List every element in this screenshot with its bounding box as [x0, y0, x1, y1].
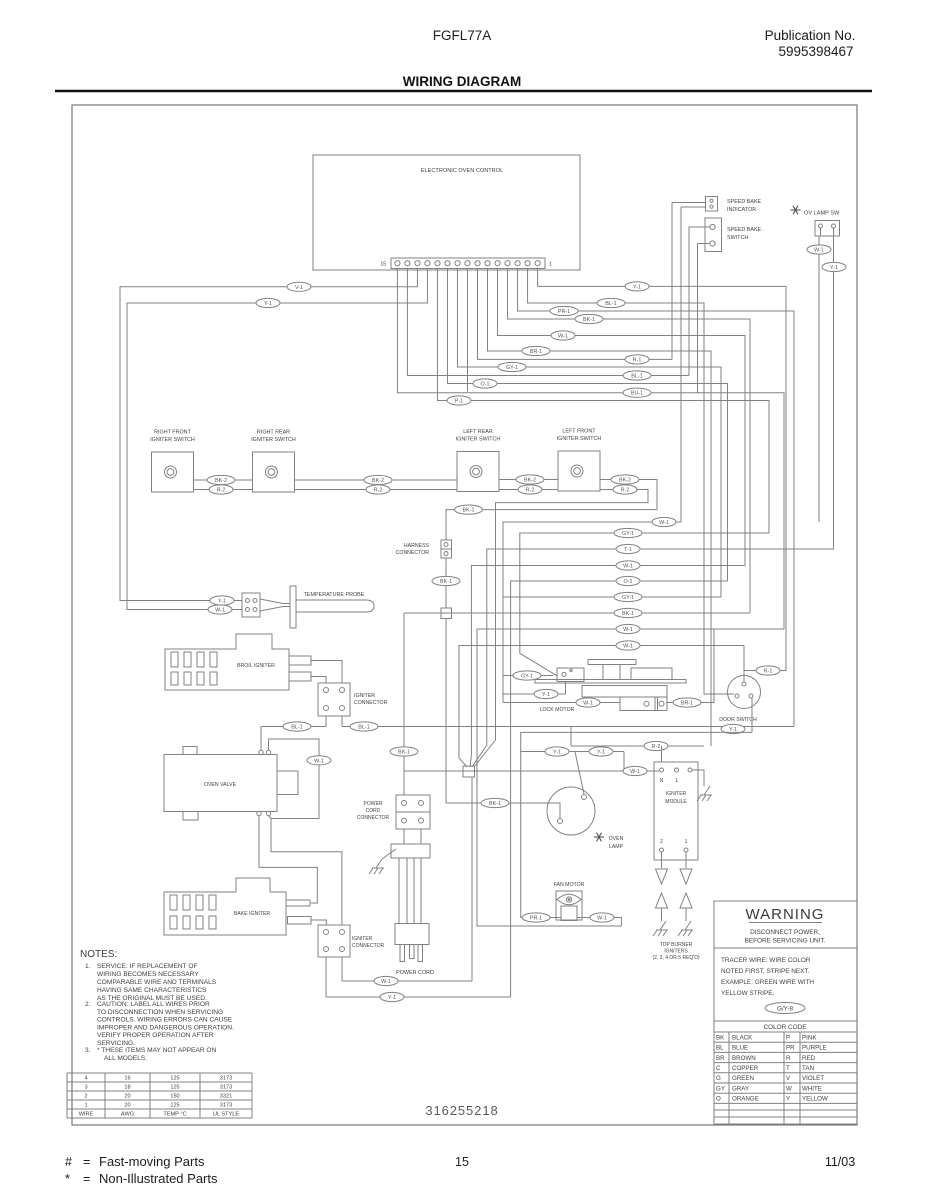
wire W-1 from EOC terminal 5: [498, 269, 745, 566]
bake igniter terminal bars: [286, 900, 311, 924]
power cord assembly W1: [391, 829, 434, 976]
wire BK-1 from harness connector to junction: [432, 558, 460, 608]
svg-text:LOCK MOTOR: LOCK MOTOR: [540, 707, 575, 713]
svg-text:BL-1: BL-1: [631, 374, 642, 380]
svg-text:PR-1: PR-1: [558, 309, 570, 315]
EOC terminal strip pins 15..1: [380, 258, 552, 269]
svg-text:W-1: W-1: [558, 334, 568, 340]
svg-text:CORD: CORD: [366, 808, 381, 814]
svg-text:WHITE: WHITE: [802, 1085, 822, 1092]
svg-text:G: G: [716, 1075, 721, 1082]
svg-text:CONNECTOR: CONNECTOR: [354, 700, 388, 706]
svg-text:W-1: W-1: [623, 564, 633, 570]
svg-text:BK-1: BK-1: [583, 317, 595, 323]
svg-text:BL-1: BL-1: [358, 725, 369, 731]
wire BR-1 from lock motor right: [666, 629, 714, 707]
wire speed bake switch feed 1: [688, 227, 690, 376]
wire GY-1 to lock motor switch: [503, 671, 553, 680]
electronic oven control U1: [313, 155, 580, 270]
svg-text:WIRE: WIRE: [79, 1112, 94, 1118]
wire to igniter module pin 2: [661, 746, 663, 762]
wire from EOC terminal 8 down to bus: [466, 269, 468, 392]
wire W-1 from fan motor: [577, 913, 621, 926]
wire R-2 igniter switch chain segment 1: [194, 485, 253, 494]
svg-text:IGNITER: IGNITER: [352, 936, 373, 942]
svg-text:BK-2: BK-2: [215, 478, 227, 484]
svg-text:INDICATOR: INDICATOR: [727, 207, 756, 213]
svg-text:20: 20: [124, 1103, 130, 1109]
svg-text:O-1: O-1: [481, 382, 490, 388]
svg-text:BAKE IGNITER: BAKE IGNITER: [234, 911, 271, 917]
svg-text:W-1: W-1: [583, 701, 593, 707]
svg-text:POWER: POWER: [364, 801, 383, 807]
warning box: [714, 901, 857, 1124]
wire speed bake switch feed 2: [697, 244, 699, 393]
svg-text:R-2: R-2: [217, 488, 226, 494]
svg-text:4: 4: [84, 1076, 87, 1082]
wire BK-1 junction to oven lamp feed: [445, 619, 447, 804]
svg-text:GY-1: GY-1: [622, 595, 634, 601]
wire PR-1 to fan motor: [521, 913, 561, 922]
wire BL-1 from EOC terminal 2 to door switch: [528, 269, 734, 695]
svg-text:BK-2: BK-2: [524, 478, 536, 484]
svg-text:BK-1: BK-1: [463, 508, 475, 514]
speed bake indicator DS1: [706, 197, 762, 214]
ground G1 power cord: [369, 849, 396, 874]
wire Y-1 bake connector to O-1 riser: [326, 957, 511, 1002]
svg-text:* THESE ITEMS MAY NOT APPEA: * THESE ITEMS MAY NOT APPEAR ON: [97, 1047, 217, 1054]
wire BK-2 igniter switch chain segment 2: [295, 475, 458, 484]
svg-text:TRACER WIRE: WIRE COLOR: TRACER WIRE: WIRE COLOR: [721, 957, 811, 964]
title WIRING DIAGRAM: [55, 74, 872, 91]
svg-text:IGNITER SWITCH: IGNITER SWITCH: [557, 436, 602, 442]
lock motor M1: [535, 660, 686, 714]
temperature probe RT1: [242, 586, 374, 628]
svg-text:11/03: 11/03: [825, 1155, 855, 1169]
svg-text:Non-Illustrated Parts: Non-Illustrated Parts: [99, 1171, 218, 1186]
right rear igniter switch S4: [251, 430, 296, 493]
svg-text:R-2: R-2: [526, 488, 535, 494]
svg-text:125: 125: [170, 1103, 179, 1109]
svg-text:R: R: [786, 1055, 791, 1062]
svg-text:CONNECTOR: CONNECTOR: [396, 550, 430, 556]
wire W-1 to lock motor: [503, 698, 620, 707]
svg-text:TOP BURNER: TOP BURNER: [660, 942, 693, 948]
svg-text:BK-1: BK-1: [489, 801, 501, 807]
svg-text:18: 18: [124, 1085, 130, 1091]
ground G2 igniter module: [692, 770, 712, 801]
wire W-1 speed bake to junction bundle: [503, 517, 681, 702]
svg-text:OVEN VALVE: OVEN VALVE: [204, 782, 237, 788]
svg-text:15: 15: [455, 1155, 469, 1169]
svg-text:OV LAMP SW: OV LAMP SW: [804, 211, 840, 217]
svg-text:BLUE: BLUE: [732, 1045, 748, 1052]
svg-text:W-1: W-1: [623, 644, 633, 650]
svg-text:BL: BL: [716, 1045, 724, 1052]
wire link BL-1 line to R-2 line: [570, 727, 572, 747]
svg-text:FGFL77A: FGFL77A: [433, 28, 492, 43]
svg-text:W-1: W-1: [623, 627, 633, 633]
left rear igniter switch S5: [456, 429, 501, 492]
svg-text:DOOR SWITCH: DOOR SWITCH: [719, 717, 757, 723]
svg-text:SPEED BAKE: SPEED BAKE: [727, 227, 762, 233]
wire Y-1 to oven lamp: [521, 747, 624, 794]
wire W-1 line to junction bundle 2: [470, 561, 745, 767]
svg-text:PURPLE: PURPLE: [802, 1045, 827, 1052]
svg-text:YELLOW STRIPE.: YELLOW STRIPE.: [721, 990, 774, 997]
speed bake switch S1: [705, 218, 762, 252]
wire GY-1 line to lock motor: [503, 592, 721, 601]
svg-text:C: C: [716, 1065, 721, 1072]
svg-text:SERVICE: IF REPLACEMENT OF: SERVICE: IF REPLACEMENT OF: [97, 963, 198, 970]
svg-text:ORANGE: ORANGE: [732, 1096, 759, 1103]
svg-text:AWG: AWG: [121, 1112, 134, 1118]
wire BK-2 from left front igniter switch to harness connector: [446, 475, 657, 540]
svg-text:EXAMPLE: GREEN WIRE WITH: EXAMPLE: GREEN WIRE WITH: [721, 979, 814, 986]
wire O-1 from EOC terminal 10: [447, 269, 727, 582]
svg-text:150: 150: [170, 1094, 179, 1100]
svg-text:1: 1: [549, 262, 552, 268]
wire BK-1 to oven lamp left pin: [446, 798, 560, 819]
svg-text:TEMPERATURE PROBE: TEMPERATURE PROBE: [304, 592, 365, 598]
label G/Y-8 tracer example: [765, 1003, 805, 1014]
svg-text:R-2: R-2: [621, 488, 630, 494]
wire R-1 from EOC terminal 7 to speed bake indicator: [478, 269, 672, 365]
svg-text:CONNECTOR: CONNECTOR: [352, 943, 385, 949]
svg-text:316255218: 316255218: [425, 1103, 498, 1118]
svg-text:1: 1: [84, 1103, 87, 1109]
svg-text:COPPER: COPPER: [732, 1065, 759, 1072]
svg-text:5995398467: 5995398467: [778, 44, 853, 59]
wire BK-1 from EOC terminal 4: [508, 269, 750, 614]
bake igniter connector P4: [318, 925, 385, 957]
svg-text:OVEN: OVEN: [609, 836, 624, 842]
svg-text:2: 2: [660, 839, 663, 845]
wire PR-1 riser to fan motor: [521, 732, 752, 917]
wire P-1 from EOC terminal 11: [437, 269, 769, 534]
svg-text:R-1: R-1: [764, 669, 773, 675]
wire W-1 door switch drop: [743, 646, 745, 677]
svg-text:BK-1: BK-1: [622, 611, 634, 617]
power cord junction node B: [463, 766, 475, 777]
svg-text:R-2: R-2: [652, 744, 661, 750]
svg-text:SERVICING.: SERVICING.: [97, 1040, 135, 1047]
svg-text:3.: 3.: [85, 1047, 91, 1054]
svg-text:DISCONNECT POWER,: DISCONNECT POWER,: [750, 929, 820, 936]
svg-text:15: 15: [380, 262, 386, 268]
wire BK-2 igniter switch chain segment 3: [499, 475, 558, 484]
wire broil igniter to connector pin 1: [311, 661, 342, 684]
svg-text:3173: 3173: [220, 1076, 232, 1082]
svg-text:W-1: W-1: [814, 248, 824, 254]
svg-text:BK-1: BK-1: [398, 750, 410, 756]
wire Y-1 from EOC terminal 12 to temperature probe: [127, 269, 427, 615]
wire PR-1 from EOC terminal 3: [518, 269, 794, 727]
svg-text:IGNITERS: IGNITERS: [664, 949, 688, 955]
wire O-1 line to bake igniter connector: [511, 576, 728, 997]
svg-text:TO DISCONNECTION WHEN SERVI: TO DISCONNECTION WHEN SERVICING: [97, 1009, 223, 1016]
svg-text:3173: 3173: [220, 1085, 232, 1091]
svg-text:V-1: V-1: [295, 285, 303, 291]
svg-text:RED: RED: [802, 1055, 816, 1062]
wire BR-1 from EOC terminal 6: [488, 269, 711, 747]
svg-text:Publication No.: Publication No.: [765, 28, 856, 43]
wire W-1 power junction to igniter module: [404, 766, 659, 775]
page header publication number: [765, 28, 856, 59]
harness connector P1: [396, 540, 452, 558]
wire R-2 horizontal above igniter module: [571, 741, 704, 750]
wire oven valve lower-right to bake igniter connector: [269, 816, 342, 926]
svg-text:UL STYLE: UL STYLE: [213, 1112, 239, 1118]
wire Y-1 from oven lamp switch down right leg: [822, 236, 846, 549]
svg-text:3: 3: [84, 1085, 87, 1091]
svg-text:YELLOW: YELLOW: [802, 1096, 828, 1103]
svg-text:W-1: W-1: [381, 979, 391, 985]
svg-text:LAMP: LAMP: [609, 844, 624, 850]
svg-text:SPEED BAKE: SPEED BAKE: [727, 199, 762, 205]
svg-text:MODULE: MODULE: [665, 799, 687, 805]
svg-text:=: =: [83, 1155, 90, 1169]
power cord connector P3: [357, 795, 430, 829]
wire GY-1 from EOC terminal 9: [457, 269, 721, 598]
svg-text:COMPARABLE WIRE AND TERMINA: COMPARABLE WIRE AND TERMINALS: [97, 979, 217, 986]
svg-text:Y-1: Y-1: [264, 301, 272, 307]
svg-text:BK-1: BK-1: [440, 579, 452, 585]
wire door switch lower pin drop: [751, 698, 753, 732]
wire Y-1 to lock motor switch: [503, 689, 566, 698]
svg-text:RIGHT FRONT: RIGHT FRONT: [154, 430, 191, 436]
wire V-1 from EOC terminal 13 to temperature probe: [120, 269, 417, 606]
door switch S8: [719, 676, 760, 724]
svg-text:ELECTRONIC OVEN CONTROL: ELECTRONIC OVEN CONTROL: [421, 168, 503, 174]
lock motor switch S7: [557, 668, 584, 694]
notes text block: [80, 949, 234, 1062]
svg-text:SWITCH: SWITCH: [727, 235, 748, 241]
svg-text:PR-1: PR-1: [530, 916, 542, 922]
svg-text:=: =: [83, 1172, 90, 1186]
svg-text:125: 125: [170, 1076, 179, 1082]
svg-text:IGNITER: IGNITER: [666, 791, 687, 797]
wire to speed bake indicator pin 1: [672, 202, 706, 204]
svg-text:CONNECTOR: CONNECTOR: [357, 815, 390, 821]
svg-text:*: *: [65, 1172, 70, 1186]
broil igniter HTR1: [165, 634, 289, 690]
svg-text:BROWN: BROWN: [732, 1055, 756, 1062]
svg-text:(2, 3, 4 OR 5 REQ'D): (2, 3, 4 OR 5 REQ'D): [652, 955, 699, 961]
svg-text:R-1: R-1: [633, 357, 642, 363]
svg-text:Fast-moving Parts: Fast-moving Parts: [99, 1154, 205, 1169]
svg-text:BLACK: BLACK: [732, 1034, 753, 1041]
svg-text:2.: 2.: [85, 1001, 91, 1008]
svg-text:125: 125: [170, 1085, 179, 1091]
wire BL-1 from broil connector to oven valve: [261, 716, 326, 750]
svg-text:LEFT FRONT: LEFT FRONT: [562, 429, 596, 435]
svg-text:W: W: [786, 1085, 792, 1092]
wire oven valve lower-left to bake igniter bar: [259, 816, 317, 903]
svg-text:PINK: PINK: [802, 1034, 817, 1041]
svg-text:W-1: W-1: [659, 520, 669, 526]
wire W-1 line to junction bundle 4: [459, 641, 744, 767]
wire T-1 oven lamp switch line to junction bundle: [472, 544, 834, 767]
svg-text:1.: 1.: [85, 963, 91, 970]
svg-text:CONTROLS. WIRING ERRORS C: CONTROLS. WIRING ERRORS CAN CAUSE: [97, 1017, 233, 1024]
spark electrode wires igniter module outputs: [656, 852, 693, 921]
wire W-1 oven valve loop: [269, 739, 332, 819]
svg-text:WIRING BECOMES NECESSARY: WIRING BECOMES NECESSARY: [97, 971, 199, 978]
svg-text:BK: BK: [716, 1034, 725, 1041]
fan motor M2: [554, 882, 585, 921]
wire BK-1 horizontal line through junction: [404, 608, 750, 617]
svg-text:3173: 3173: [220, 1103, 232, 1109]
svg-text:Y: Y: [786, 1096, 790, 1103]
broil igniter terminal bars: [289, 656, 311, 681]
svg-text:TEMP °C: TEMP °C: [163, 1112, 186, 1118]
wire to speed bake indicator pin 2: [681, 206, 706, 208]
footer fast-moving parts legend: [65, 1154, 218, 1186]
wire junction to bake igniter connector W-1: [471, 777, 473, 981]
wire R-2 from left front igniter switch down: [474, 485, 648, 767]
svg-text:POWER CORD: POWER CORD: [396, 970, 434, 976]
svg-text:NOTES:: NOTES:: [80, 949, 117, 960]
svg-text:ALL MODELS.: ALL MODELS.: [104, 1055, 147, 1062]
wire W-1 from oven lamp switch down left leg: [807, 236, 831, 522]
svg-text:W-1: W-1: [215, 608, 225, 614]
svg-text:PR: PR: [786, 1045, 795, 1052]
svg-text:20: 20: [124, 1094, 130, 1100]
svg-text:LEFT REAR: LEFT REAR: [463, 429, 493, 435]
svg-text:HARNESS: HARNESS: [404, 543, 430, 549]
svg-text:P: P: [786, 1034, 790, 1041]
svg-text:W-1: W-1: [597, 916, 607, 922]
svg-text:TAN: TAN: [802, 1065, 814, 1072]
svg-text:BU-1: BU-1: [631, 391, 643, 397]
ground G3 top burner igniter 1: [653, 921, 668, 936]
svg-text:3321: 3321: [220, 1094, 232, 1100]
svg-text:Y-1: Y-1: [633, 284, 641, 290]
diagram border frame: [72, 105, 857, 1125]
svg-text:IGNITER: IGNITER: [354, 693, 375, 699]
wire Y-1 from EOC terminal 1 to door switch: [538, 269, 786, 683]
wire speed bake indicator feed 2: [680, 207, 682, 522]
svg-text:G/Y-8: G/Y-8: [777, 1006, 794, 1013]
wire BL-1 from EOC terminal 14 to speed bake switch: [407, 269, 689, 381]
svg-text:O: O: [716, 1096, 721, 1103]
wire BU-1 from EOC terminal 15: [397, 269, 784, 630]
svg-text:R-2: R-2: [374, 488, 383, 494]
ground G4 top burner igniter 2: [678, 921, 693, 936]
wire bake igniter lower bar to connector: [311, 920, 326, 925]
svg-text:W-1: W-1: [630, 769, 640, 775]
wire BK-1 power cord connector feed: [390, 613, 418, 795]
svg-text:O-1: O-1: [624, 579, 633, 585]
svg-text:BR-1: BR-1: [681, 701, 693, 707]
svg-text:BL-1: BL-1: [605, 301, 616, 307]
svg-text:Y-1: Y-1: [388, 995, 396, 1001]
svg-text:16: 16: [124, 1076, 130, 1082]
wire speed bake indicator feed 1: [671, 203, 673, 360]
svg-text:BR: BR: [716, 1055, 725, 1062]
svg-text:BEFORE SERVICING UNIT.: BEFORE SERVICING UNIT.: [745, 938, 826, 945]
svg-text:Y-1: Y-1: [553, 750, 561, 756]
svg-text:CAUTION: LABEL ALL WIRES: CAUTION: LABEL ALL WIRES PRIOR: [97, 1001, 210, 1008]
oven lamp switch S2 (OV LAMP SW): [791, 206, 841, 236]
svg-text:W-1: W-1: [314, 758, 324, 764]
wire BK-2 igniter switch chain segment 1: [194, 475, 253, 484]
wire R-2 igniter switch chain segment 2: [295, 485, 458, 494]
broil igniter connector P2: [318, 683, 388, 716]
svg-text:T-1: T-1: [624, 547, 632, 553]
svg-text:GREEN: GREEN: [732, 1075, 754, 1082]
left front igniter switch S6: [557, 429, 602, 492]
svg-text:#: #: [65, 1155, 72, 1169]
label top burner igniters: [652, 942, 699, 961]
svg-text:Y-1: Y-1: [597, 750, 605, 756]
svg-text:IGNITER SWITCH: IGNITER SWITCH: [456, 437, 501, 443]
right front igniter switch S3: [150, 430, 195, 493]
svg-text:BR-1: BR-1: [530, 349, 542, 355]
svg-text:GY-1: GY-1: [622, 531, 634, 537]
svg-text:NOTED FIRST, STRIPE NEXT.: NOTED FIRST, STRIPE NEXT.: [721, 968, 810, 975]
svg-text:GY-1: GY-1: [506, 365, 518, 371]
svg-text:BL-1: BL-1: [291, 725, 302, 731]
svg-text:Y-1: Y-1: [542, 692, 550, 698]
svg-text:IGNITER SWITCH: IGNITER SWITCH: [251, 437, 296, 443]
svg-text:N: N: [660, 778, 664, 784]
junction node A: [441, 608, 452, 619]
svg-text:P-1: P-1: [455, 399, 463, 405]
svg-text:RIGHT REAR: RIGHT REAR: [257, 430, 290, 436]
svg-text:1: 1: [685, 839, 688, 845]
wire W-1 bake connector to junction: [342, 957, 472, 986]
svg-text:BK-2: BK-2: [372, 478, 384, 484]
svg-text:COLOR CODE: COLOR CODE: [764, 1024, 807, 1031]
svg-text:BK-2: BK-2: [619, 478, 631, 484]
color code table: [714, 1021, 857, 1124]
svg-text:IMPROPER AND DANGEROUS OPER: IMPROPER AND DANGEROUS OPERATION.: [97, 1024, 234, 1031]
svg-text:IGNITER SWITCH: IGNITER SWITCH: [150, 437, 195, 443]
wire gauge table: [67, 1073, 252, 1118]
svg-text:GY-1: GY-1: [521, 674, 533, 680]
wire BL-1 from broil connector across to door switch riser: [342, 716, 794, 734]
wire R-2 igniter switch chain segment 3: [499, 485, 558, 494]
svg-text:T: T: [786, 1065, 790, 1072]
svg-text:WIRING DIAGRAM: WIRING DIAGRAM: [403, 74, 522, 89]
wire broil igniter to connector pin 2: [311, 677, 326, 684]
wire W-1 line to junction bundle 3: [477, 624, 784, 926]
igniter module U2: [654, 762, 698, 860]
svg-text:Y-1: Y-1: [830, 265, 838, 271]
svg-text:L: L: [676, 778, 679, 784]
bake igniter HTR2: [164, 878, 286, 935]
svg-text:BROIL IGNITER: BROIL IGNITER: [237, 663, 275, 669]
svg-text:WARNING: WARNING: [746, 906, 825, 923]
svg-text:GY: GY: [716, 1085, 725, 1092]
oven lamp DS2: [547, 787, 624, 850]
oven valve L1: [164, 747, 298, 821]
wire to speed bake switch pin 2: [698, 243, 710, 245]
svg-text:HAVING SAME CHARACTERISTICS: HAVING SAME CHARACTERISTICS: [97, 987, 207, 994]
svg-text:Y-1: Y-1: [218, 599, 226, 605]
svg-text:FAN MOTOR: FAN MOTOR: [554, 882, 585, 888]
svg-text:VIOLET: VIOLET: [802, 1075, 824, 1082]
svg-text:2: 2: [84, 1094, 87, 1100]
wire GY-1 cross line to lock motor switch: [520, 528, 769, 675]
svg-text:GRAY: GRAY: [732, 1085, 749, 1092]
svg-text:VERIFY PROPER OPERATION AFT: VERIFY PROPER OPERATION AFTER: [97, 1032, 214, 1039]
wire to speed bake switch pin 1: [689, 226, 710, 228]
